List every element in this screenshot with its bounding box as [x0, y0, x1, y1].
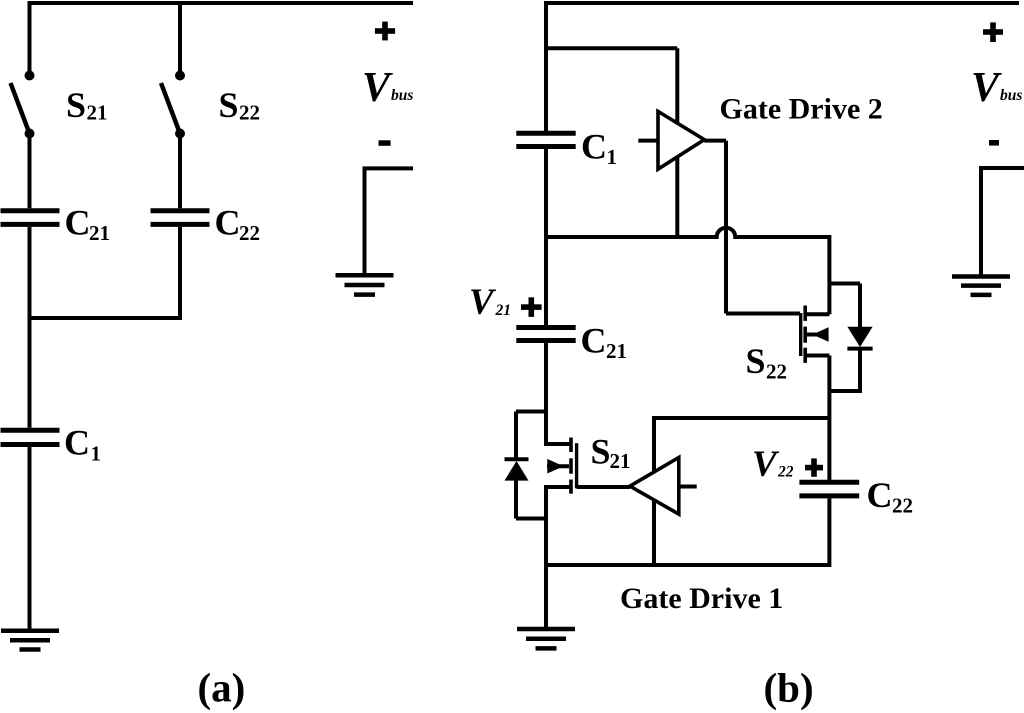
- switch S22 blade: [161, 83, 180, 134]
- wire C1 to ground (a): [28, 447, 32, 629]
- svg-text:C: C: [581, 321, 607, 361]
- svg-text:Gate Drive 1: Gate Drive 1: [620, 582, 783, 615]
- label plus Vbus (b): [983, 22, 1003, 42]
- wire right branch vertical top (a): [178, 1, 182, 71]
- svg-text:C: C: [65, 203, 91, 243]
- capacitor C22 (a): [151, 211, 210, 225]
- svg-text:S: S: [591, 432, 611, 472]
- label Vbus (a): [362, 65, 413, 111]
- label V22: [752, 444, 794, 485]
- svg-text:1: 1: [607, 145, 618, 169]
- svg-text:(b): (b): [764, 665, 814, 711]
- label S21: [66, 85, 108, 125]
- label S21 (b): [591, 432, 631, 474]
- node switch S21 top contact dot: [25, 71, 35, 81]
- transistor S21 channel segments: [569, 438, 573, 494]
- label S22 (b): [746, 341, 788, 384]
- diode D21 vertical bottom: [514, 480, 518, 519]
- wire main vertical C1 to C21 (b): [544, 149, 548, 325]
- wire top bus (b): [544, 1, 1019, 5]
- diode D22 cathode bar: [847, 347, 872, 351]
- svg-text:22: 22: [239, 221, 260, 245]
- svg-text:V: V: [971, 65, 1002, 111]
- wire S22 source vertical to C22: [827, 356, 831, 481]
- wire gate-drive-2 branch vertical: [675, 48, 679, 239]
- capacitor C1 (b): [516, 133, 575, 146]
- svg-text:S: S: [219, 85, 239, 125]
- wire S21 to C21: [28, 134, 32, 209]
- ground Vbus (b): [952, 277, 1010, 295]
- svg-text:V: V: [362, 65, 393, 111]
- svg-text:S: S: [746, 341, 766, 381]
- diode D21 bottom wire: [516, 517, 546, 521]
- label plus C21 (b): [521, 297, 542, 317]
- ground (b): [517, 629, 575, 648]
- wire left branch vertical top (a): [28, 1, 32, 71]
- label V21: [469, 282, 511, 323]
- wire diode D22 bottom step: [829, 389, 860, 393]
- label C22 (a): [215, 203, 261, 246]
- svg-text:S: S: [66, 85, 86, 125]
- transistor S22 drain horizontal: [805, 312, 829, 316]
- node switch S21 bottom contact dot: [25, 129, 35, 139]
- label minus Vbus (a): [379, 140, 391, 146]
- wire C22 bottom vertical: [827, 498, 831, 567]
- wire gate-drive-2 output vertical to S22 gate: [724, 141, 728, 314]
- transistor S21 gate plate: [575, 443, 578, 488]
- label C22 (b): [867, 475, 914, 518]
- svg-text:21: 21: [495, 302, 512, 319]
- wire gate-drive-1 top horizontal: [654, 416, 829, 420]
- label C1 (b): [581, 127, 617, 170]
- svg-text:21: 21: [606, 339, 627, 363]
- svg-text:bus: bus: [391, 87, 413, 104]
- wire Vbus stub (a): [365, 168, 414, 273]
- svg-text:21: 21: [87, 101, 108, 125]
- wire gate-drive-2 input stub: [638, 139, 658, 143]
- label plus C22 (b): [805, 458, 823, 476]
- svg-text:22: 22: [777, 464, 794, 481]
- svg-text:C: C: [215, 203, 241, 243]
- wire middle bus with hop (b): [546, 228, 829, 237]
- node switch S22 bottom contact dot: [175, 129, 185, 139]
- label C21 (a): [65, 203, 111, 246]
- svg-text:V: V: [752, 444, 780, 485]
- wire bottom bus (b): [546, 563, 829, 567]
- label C21 (b): [581, 321, 628, 364]
- transistor S22 gate wire: [726, 312, 800, 316]
- svg-text:C: C: [64, 423, 90, 463]
- node switch S22 top contact dot: [175, 71, 185, 81]
- wire top bus (a): [28, 1, 414, 5]
- diode D21 triangle: [505, 461, 529, 481]
- label minus Vbus (b): [989, 140, 999, 146]
- wire S21 gate to gate-drive-1: [577, 485, 630, 489]
- svg-text:bus: bus: [1000, 87, 1022, 104]
- ground Vbus (a): [336, 275, 394, 294]
- diode D22 vertical top: [858, 284, 862, 328]
- capacitor C21 (a): [1, 211, 60, 225]
- diode D21 cathode bar: [505, 457, 529, 461]
- capacitor C1 (a): [1, 430, 60, 444]
- op-amp buffer U2 gate drive 2 triangle: [658, 111, 704, 169]
- transistor S22 body arrow: [807, 327, 829, 341]
- wire S22 to C22: [178, 134, 182, 209]
- svg-text:C: C: [867, 475, 893, 515]
- wire C21 to junction: [28, 227, 32, 320]
- label plus Vbus (a): [375, 22, 395, 41]
- wire gate-drive-1 input stub: [679, 485, 697, 489]
- transistor S22 source horizontal: [805, 354, 829, 358]
- wire C22 down to junction: [178, 227, 182, 318]
- diode D22 triangle: [847, 327, 872, 347]
- transistor S22 gate plate: [799, 313, 802, 356]
- svg-text:22: 22: [239, 101, 260, 125]
- svg-text:(a): (a): [198, 665, 246, 711]
- wire gate-drive-2 branch horizontal: [546, 46, 677, 50]
- diode D21 body diode top wire: [516, 410, 546, 414]
- wire junction to C1 (a): [28, 318, 32, 428]
- wire gate-drive-1 vertical: [652, 416, 656, 565]
- svg-text:21: 21: [89, 221, 110, 245]
- transistor S21 source horizontal: [546, 485, 571, 489]
- label S22: [219, 85, 261, 125]
- label Vbus (b): [971, 65, 1022, 111]
- transistor S21 body arrow: [547, 459, 569, 474]
- transistor S21 drain horizontal: [546, 442, 571, 446]
- svg-text:1: 1: [91, 441, 102, 465]
- capacitor C22 (b): [799, 482, 859, 496]
- svg-text:22: 22: [892, 494, 913, 518]
- wire gate-drive-2 output: [704, 139, 726, 143]
- capacitor C21 (b): [516, 328, 575, 341]
- op-amp buffer U1 gate drive 1 triangle: [630, 458, 679, 515]
- diode D21 vertical top: [514, 412, 518, 459]
- wire junction horizontal (a): [28, 316, 183, 320]
- wire main vertical S21 source to ground: [544, 485, 548, 627]
- svg-text:Gate Drive 2: Gate Drive 2: [720, 93, 883, 126]
- svg-text:C: C: [581, 127, 607, 167]
- wire Vbus stub (b): [981, 168, 1024, 274]
- wire S22 drain vertical: [827, 235, 831, 314]
- svg-text:22: 22: [766, 360, 787, 384]
- svg-text:V: V: [469, 282, 497, 323]
- ground (a): [1, 631, 59, 650]
- wire diode D22 branch horizontal: [829, 282, 860, 286]
- label C1 (a): [64, 423, 101, 466]
- wire main vertical C21 to S21 drain: [544, 343, 548, 446]
- switch S21 blade: [11, 83, 30, 134]
- wire main vertical top (b): [544, 1, 548, 131]
- diode D22 vertical bottom: [858, 349, 862, 393]
- svg-text:21: 21: [610, 449, 631, 473]
- transistor S22 channel segments: [803, 306, 807, 363]
